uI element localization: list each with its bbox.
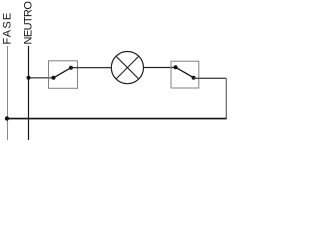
svg-text:NEUTRO: NEUTRO bbox=[23, 1, 35, 45]
svg-text:FASE: FASE bbox=[2, 12, 14, 45]
